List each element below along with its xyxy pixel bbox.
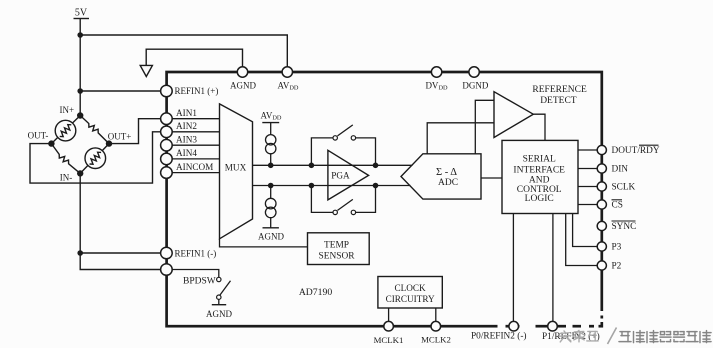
wire DIN bbox=[578, 168, 597, 170]
svg-text:AGND: AGND bbox=[230, 81, 256, 91]
wire CS bbox=[578, 204, 597, 206]
resistor RB (circled, bottom-right arm) bbox=[85, 148, 106, 169]
resistor RD (zigzag, bottom-left arm) bbox=[51, 144, 80, 174]
svg-text:AGND: AGND bbox=[258, 232, 284, 242]
wire comparator input upper bbox=[475, 100, 494, 154]
node junction lower bus left bbox=[309, 183, 315, 189]
svg-text:CLOCK: CLOCK bbox=[395, 283, 427, 293]
chopper switch upper bbox=[311, 125, 375, 165]
node 5V rail junction bbox=[77, 32, 83, 38]
wire ADC to serial logic bbox=[481, 177, 502, 179]
svg-text:OUT+: OUT+ bbox=[108, 132, 132, 142]
node IN- bbox=[77, 170, 83, 176]
supply 5V label bbox=[74, 7, 288, 116]
current source I2 (AGND) bbox=[258, 183, 284, 242]
wire OUT- to AIN2 bbox=[30, 132, 161, 183]
pin DGND (top) bbox=[469, 67, 479, 77]
wire 5V vertical bbox=[79, 19, 81, 117]
clock circuitry box bbox=[378, 277, 442, 309]
switch contacts (lower chopper) bbox=[333, 210, 337, 214]
wire P2 bbox=[566, 214, 598, 266]
pin AIN3 bbox=[161, 139, 173, 151]
pin AGND (top) bbox=[237, 67, 247, 77]
pin SYNC bbox=[597, 221, 606, 230]
svg-text:CIRCUITRY: CIRCUITRY bbox=[386, 294, 435, 304]
wire bus upper bbox=[253, 164, 413, 166]
svg-text:AIN1: AIN1 bbox=[176, 108, 197, 118]
pin AIN1 bbox=[161, 113, 173, 125]
bridge sensor bbox=[51, 116, 109, 174]
svg-text:P3: P3 bbox=[612, 243, 622, 253]
svg-text:OUT-: OUT- bbox=[28, 131, 49, 141]
svg-text:DGND: DGND bbox=[462, 81, 488, 91]
pin CS bbox=[597, 200, 606, 209]
svg-text:Σ - Δ: Σ - Δ bbox=[436, 167, 457, 178]
node junction upper bus right bbox=[373, 163, 379, 169]
wire 5V rail to AVDD bbox=[80, 35, 287, 67]
pin MCLK2 bbox=[431, 321, 441, 331]
pin AIN4 bbox=[161, 153, 173, 165]
BPDSW internal wire bbox=[172, 270, 219, 278]
svg-text:SENSOR: SENSOR bbox=[319, 251, 356, 261]
svg-text:MUX: MUX bbox=[225, 163, 247, 173]
svg-text:DOUT/RDY: DOUT/RDY bbox=[612, 146, 660, 156]
node junction lower bus right bbox=[373, 183, 379, 189]
pin P3 bbox=[597, 242, 606, 251]
comparator (reference detect) bbox=[494, 92, 533, 138]
svg-text:5V: 5V bbox=[75, 7, 88, 18]
svg-text:P2: P2 bbox=[612, 262, 622, 272]
switch SW1 (bridge power-down) bbox=[217, 277, 221, 281]
node IN+ bbox=[77, 112, 83, 118]
svg-text:AIN4: AIN4 bbox=[176, 148, 197, 158]
ground arrow bbox=[140, 65, 152, 76]
svg-text:MCLK1: MCLK1 bbox=[374, 335, 404, 345]
pin P1/REFIN2 bbox=[548, 321, 558, 331]
svg-text:AINCOM: AINCOM bbox=[176, 162, 213, 172]
wire P1 vertical bbox=[552, 214, 554, 327]
wire arm top-left bbox=[51, 116, 80, 144]
svg-text:INTERFACE: INTERFACE bbox=[513, 166, 565, 176]
pin P2 bbox=[597, 261, 606, 270]
resistor RA (circled, top-left arm) bbox=[55, 120, 76, 141]
PGA bbox=[328, 150, 369, 200]
wire comparator input lower bbox=[427, 123, 494, 154]
wire AIN2 to MUX bbox=[172, 131, 219, 133]
wire arm bottom-right bbox=[80, 144, 109, 174]
wire AIN4 to MUX bbox=[172, 158, 219, 160]
node junction upper bus left bbox=[309, 163, 315, 169]
pin REFIN1 (-) bbox=[161, 247, 173, 259]
svg-text:BPDSW: BPDSW bbox=[183, 277, 216, 287]
svg-text:SCLK: SCLK bbox=[612, 183, 636, 193]
pin DVDD (top) bbox=[431, 67, 441, 77]
svg-text:MCLK2: MCLK2 bbox=[421, 334, 451, 344]
current source I1 (AVDD) bbox=[261, 110, 282, 168]
svg-text:P0/REFIN2 (-): P0/REFIN2 (-) bbox=[471, 331, 527, 342]
node REFIN1- junction bbox=[77, 250, 83, 256]
svg-text:AGND: AGND bbox=[206, 309, 232, 319]
svg-text:IN+: IN+ bbox=[60, 105, 75, 115]
wire P3 bbox=[573, 214, 598, 247]
5V rail tick bbox=[74, 18, 90, 20]
watermark text (Toutiao) bbox=[559, 328, 711, 345]
watermark erase gaps on chip border bbox=[498, 311, 606, 330]
wire P0 vertical bbox=[512, 214, 514, 327]
svg-text:IN-: IN- bbox=[60, 173, 73, 183]
wire AINCOM to MUX bbox=[172, 172, 219, 174]
wire AIN1 to MUX bbox=[172, 118, 219, 120]
svg-text:REFIN1 (+): REFIN1 (+) bbox=[175, 86, 219, 96]
pin P0/REFIN2 bbox=[509, 321, 519, 331]
wire SCLK bbox=[578, 186, 597, 188]
pin REFIN1 (+) bbox=[161, 85, 173, 97]
chip outline AD7190 bbox=[167, 72, 602, 326]
wire comparator output bbox=[533, 114, 545, 140]
wire REFIN1+ to 5V bbox=[80, 90, 160, 92]
serial interface box bbox=[502, 140, 578, 213]
svg-text:DIN: DIN bbox=[612, 165, 629, 175]
ground AGND (switch) bbox=[218, 299, 220, 304]
svg-text:ADC: ADC bbox=[438, 178, 458, 188]
wire MCLK1 bbox=[388, 308, 390, 326]
svg-text:REFERENCE: REFERENCE bbox=[532, 85, 587, 95]
pin AINCOM bbox=[161, 167, 173, 179]
svg-text:AD7190: AD7190 bbox=[299, 287, 333, 298]
svg-text:TEMP: TEMP bbox=[324, 240, 349, 250]
pin SCLK bbox=[597, 182, 606, 191]
pin AVDD (top) bbox=[282, 67, 292, 77]
pin BPDSW bbox=[161, 264, 173, 276]
wire IN- to REFIN1- bbox=[79, 173, 81, 253]
svg-text:AIN3: AIN3 bbox=[176, 135, 197, 145]
svg-text:SERIAL: SERIAL bbox=[523, 155, 556, 165]
resistor RC (zigzag, top-right arm) bbox=[80, 116, 109, 144]
pin MCLK1 bbox=[384, 321, 394, 331]
node OUT- bbox=[48, 140, 54, 146]
MUX bbox=[220, 104, 253, 239]
pin AIN2 bbox=[161, 126, 173, 138]
wire DOUT bbox=[578, 149, 597, 151]
svg-text:AIN2: AIN2 bbox=[176, 121, 197, 131]
wire bus lower bbox=[253, 185, 411, 187]
wire AGND pin to ground arrow bbox=[146, 49, 242, 67]
wire MUX to TEMP SENSOR bbox=[220, 239, 308, 247]
temp sensor box bbox=[308, 233, 370, 265]
svg-text:DETECT: DETECT bbox=[540, 96, 577, 106]
wire OUT+ to AIN1 bbox=[109, 119, 161, 144]
svg-text:SYNC: SYNC bbox=[612, 222, 637, 232]
wire to BPDSW bbox=[80, 253, 160, 270]
node OUT+ bbox=[106, 140, 112, 146]
svg-text:PGA: PGA bbox=[331, 171, 350, 181]
chopper switch lower bbox=[311, 186, 375, 213]
svg-text:REFIN1 (-): REFIN1 (-) bbox=[175, 249, 217, 259]
switch contacts (upper chopper) bbox=[333, 136, 337, 140]
pin DIN bbox=[597, 164, 606, 173]
node REFIN1+ junction bbox=[77, 88, 83, 94]
wire MCLK2 bbox=[435, 308, 437, 326]
pin DOUT/RDY bbox=[597, 145, 606, 154]
wire AIN3 to MUX bbox=[172, 144, 219, 146]
svg-text:CS: CS bbox=[612, 201, 623, 211]
ADC sigma-delta bbox=[401, 154, 481, 199]
svg-text:LOGIC: LOGIC bbox=[525, 194, 554, 204]
